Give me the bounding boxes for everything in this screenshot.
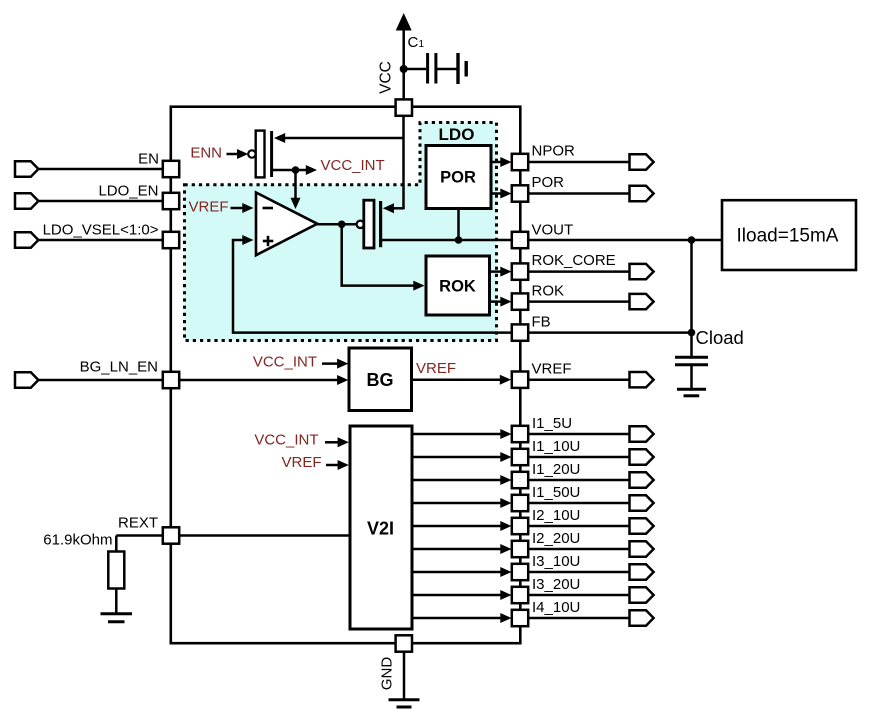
- svg-text:ROK_CORE: ROK_CORE: [532, 252, 616, 269]
- svg-text:I3_10U: I3_10U: [532, 553, 580, 570]
- wire VCC_INT down into LDO: [294, 170, 297, 199]
- LDO block cyan fill: [185, 123, 497, 341]
- wire I1_50U output: [528, 502, 630, 505]
- wire NPOR output: [528, 161, 630, 164]
- svg-text:VREF: VREF: [532, 361, 572, 378]
- port I1_10U output: [630, 449, 654, 464]
- pin I1_20U: [512, 472, 528, 488]
- ARROWHEADS: [237, 13, 512, 623]
- port EN input: [15, 161, 38, 176]
- wire V2I to I3_20U: [412, 594, 502, 597]
- wire VREF to op-amp minus input: [231, 207, 244, 210]
- wire V2I to I1_10U: [412, 456, 502, 459]
- wire I3_10U output: [528, 571, 630, 574]
- wire ROK output: [528, 300, 630, 303]
- wire ENN gate lead: [227, 153, 241, 156]
- transistor ENN channel bar: [270, 131, 273, 177]
- svg-text:VREF: VREF: [416, 360, 456, 377]
- wire LDO_VSEL input: [37, 239, 165, 242]
- svg-text:LDO_EN: LDO_EN: [98, 183, 158, 200]
- wire V2I to I3_10U: [412, 571, 502, 574]
- wire I3_20U output: [528, 594, 630, 597]
- arrow V2I to I1_10U pin: [500, 452, 511, 462]
- wire VCC arrow shaft: [402, 17, 405, 107]
- wire REXT resistor bottom lead: [115, 589, 118, 614]
- wire op-amp output to ROK input: [342, 224, 416, 285]
- wire I2_20U output: [528, 548, 630, 551]
- svg-text:FB: FB: [532, 314, 551, 331]
- pin VCC: [396, 99, 412, 115]
- wire V2I to I1_5U: [412, 433, 502, 436]
- svg-text:NPOR: NPOR: [532, 143, 576, 160]
- arrow V2I to I1_20U pin: [500, 475, 511, 485]
- wire C1 cap middle lead: [437, 68, 457, 71]
- wire EN input: [37, 168, 165, 171]
- ground below resistor: [101, 614, 133, 622]
- wire I1_10U output: [528, 456, 630, 459]
- capacitor Cload plates: [675, 357, 708, 365]
- svg-text:I1_5U: I1_5U: [532, 415, 572, 432]
- node VOUT/Iload junction: [688, 236, 696, 244]
- svg-text:ROK: ROK: [532, 283, 565, 300]
- wire C1 cap left lead: [404, 68, 427, 71]
- transistor pass PMOS gate bubble: [357, 221, 364, 228]
- arrow ENN source to VCC_INT label: [306, 165, 317, 175]
- svg-text:ROK: ROK: [439, 278, 476, 296]
- transistor ENN gate plate: [256, 131, 265, 178]
- wire Cload bottom lead: [690, 366, 693, 389]
- arrow VREF to minus input: [242, 203, 253, 213]
- svg-text:V2I: V2I: [367, 519, 394, 539]
- arrow POR to POR pin: [500, 189, 511, 199]
- svg-text:EN: EN: [138, 151, 159, 168]
- arrow VCC_INT down: [291, 198, 301, 209]
- svg-text:BG_LN_EN: BG_LN_EN: [80, 359, 158, 376]
- port LDO_VSEL input: [15, 232, 38, 247]
- wire V2I to I2_10U: [412, 525, 502, 528]
- pin FB: [512, 324, 528, 340]
- wire VOUT to Iload: [528, 239, 722, 242]
- pin REXT: [163, 527, 179, 543]
- svg-text:VCC: VCC: [378, 61, 395, 94]
- pin I1_50U: [512, 495, 528, 511]
- wire POR to NPOR pin: [491, 161, 502, 164]
- svg-text:VCC_INT: VCC_INT: [253, 354, 317, 371]
- arrow V2I to I1_50U pin: [500, 498, 511, 508]
- wire V2I to I2_20U: [412, 548, 502, 551]
- pin NPOR: [512, 154, 528, 170]
- wire op-amp output: [317, 223, 357, 226]
- svg-text:BG: BG: [367, 370, 394, 390]
- pin LDO_EN: [163, 193, 179, 209]
- transistor pass PMOS gate plate: [364, 200, 374, 248]
- LDO block dotted border: [185, 123, 497, 341]
- port I1_20U output: [630, 472, 654, 487]
- port I2_10U output: [630, 518, 654, 533]
- arrow VCC_INT into V2I: [338, 437, 349, 447]
- capacitor C1 plates: [428, 53, 467, 84]
- svg-text:61.9kOhm: 61.9kOhm: [43, 532, 112, 549]
- node VCC / C1 junction: [400, 65, 408, 73]
- wire BG to VREF pin: [412, 378, 502, 381]
- svg-text:GND: GND: [379, 657, 396, 691]
- port ROK_CORE output: [630, 264, 654, 279]
- block V2I: [350, 426, 412, 629]
- svg-text:Iload=15mA: Iload=15mA: [737, 226, 839, 247]
- pin EN: [163, 161, 179, 177]
- wire ROK to ROK pin: [490, 300, 503, 303]
- arrow POR to NPOR pin: [500, 157, 511, 167]
- wire I2_10U output: [528, 525, 630, 528]
- wire I1_5U output: [528, 433, 630, 436]
- wire VREF output: [528, 378, 630, 381]
- pin POR: [512, 185, 528, 201]
- svg-text:I3_20U: I3_20U: [532, 576, 580, 593]
- arrow ROK to ROK_CORE pin: [500, 267, 511, 277]
- wire REXT to V2I: [116, 534, 350, 537]
- arrow into ENN drain: [274, 133, 285, 143]
- pin ROK: [512, 293, 528, 309]
- arrow V2I to I2_20U pin: [500, 544, 511, 554]
- wire V2I to I1_20U: [412, 479, 502, 482]
- pin I4_10U: [512, 610, 528, 626]
- node op-amp output junction: [338, 221, 346, 229]
- wire FB external: [528, 331, 692, 334]
- arrow VREF into V2I: [338, 460, 349, 470]
- port BG_LN_EN input: [15, 372, 38, 387]
- pin VREF: [512, 372, 528, 388]
- arrow ROK to ROK pin: [500, 297, 511, 307]
- wire ENN source to VCC_INT: [273, 169, 307, 172]
- CONNECTORS: [15, 154, 654, 625]
- wire BG_LN_EN input to BG block: [37, 379, 339, 382]
- port I1_5U output: [630, 426, 654, 441]
- wire V2I to I4_10U: [412, 617, 502, 620]
- wire VCC pin to transistors: [402, 112, 405, 209]
- svg-text:LDO_VSEL<1:0>: LDO_VSEL<1:0>: [43, 222, 159, 239]
- wire I4_10U output: [528, 617, 630, 620]
- svg-text:I1_50U: I1_50U: [532, 484, 580, 501]
- svg-text:VREF: VREF: [281, 454, 321, 471]
- pin I1_10U: [512, 449, 528, 465]
- svg-text:POR: POR: [532, 174, 565, 191]
- wire VCC to ENN transistor drain: [281, 137, 404, 140]
- svg-text:REXT: REXT: [118, 515, 158, 532]
- transistor ENN gate bubble: [248, 150, 255, 157]
- pin VOUT: [512, 232, 528, 248]
- port I4_10U output: [630, 610, 654, 625]
- node VCC_INT junction: [292, 166, 300, 174]
- block BG: [349, 348, 412, 411]
- arrow BG_LN_EN into BG: [337, 375, 348, 385]
- wire VCC to pass transistor drain: [390, 207, 404, 210]
- wire feedback to plus input: [233, 240, 513, 333]
- pin I2_20U: [512, 541, 528, 557]
- wire VOUT to FB node: [690, 240, 693, 333]
- node VOUT/POR junction: [455, 236, 463, 244]
- ground below Cload: [677, 389, 706, 396]
- wire ROK to ROK_CORE pin: [490, 270, 503, 273]
- svg-text:Cload: Cload: [696, 327, 744, 348]
- svg-text:1: 1: [419, 39, 425, 50]
- wire Cload top lead: [690, 333, 693, 356]
- pin I2_10U: [512, 518, 528, 534]
- wire VCC_INT to BG arrow lead: [322, 362, 339, 365]
- arrow VCC top: [396, 13, 412, 31]
- port I3_20U output: [630, 587, 654, 602]
- svg-text:POR: POR: [440, 169, 476, 187]
- port POR output: [630, 186, 654, 201]
- PINS: [163, 99, 528, 651]
- port VREF output: [630, 372, 654, 387]
- pin LDO_VSEL: [163, 232, 179, 248]
- port LDO_EN input: [15, 193, 38, 208]
- port I2_20U output: [630, 541, 654, 556]
- svg-text:I1_10U: I1_10U: [532, 438, 580, 455]
- wire LDO_EN input: [37, 200, 165, 203]
- wire VCC_INT to V2I lead: [325, 441, 340, 444]
- port NPOR output: [630, 154, 654, 169]
- op-amp minus sign: [263, 207, 274, 210]
- arrow V2I to I3_20U pin: [500, 590, 511, 600]
- svg-text:C: C: [408, 34, 419, 51]
- arrow into ROK: [413, 281, 424, 291]
- wire pass transistor source to VOUT pin: [382, 239, 514, 242]
- wire REXT resistor top lead: [115, 536, 118, 552]
- port ROK output: [630, 294, 654, 309]
- port I1_50U output: [630, 495, 654, 510]
- svg-text:I4_10U: I4_10U: [532, 599, 580, 616]
- pin GND: [396, 635, 412, 651]
- ground below GND pin: [389, 700, 420, 707]
- op-amp plus sign: [263, 236, 274, 246]
- pin BG_LN_EN: [163, 372, 179, 388]
- node FB/Cload junction: [688, 329, 696, 337]
- port I3_10U output: [630, 564, 654, 579]
- arrow V2I to I2_10U pin: [500, 521, 511, 531]
- svg-text:LDO: LDO: [439, 125, 475, 144]
- JUNCTION DOTS: [292, 65, 696, 336]
- svg-text:VOUT: VOUT: [532, 222, 574, 239]
- wire POR bottom stem: [457, 209, 460, 241]
- svg-text:VCC_INT: VCC_INT: [254, 432, 318, 449]
- arrow VCC_INT into BG: [337, 359, 348, 369]
- chip boundary: [171, 107, 521, 644]
- pin I3_10U: [512, 564, 528, 580]
- block POR: [426, 146, 491, 209]
- wire GND stem: [403, 650, 406, 699]
- arrow feedback to plus input: [242, 235, 253, 245]
- resistor REXT 61.9kOhm: [108, 552, 124, 589]
- wire ROK_CORE output: [528, 270, 630, 273]
- block ROK: [426, 256, 490, 315]
- wire VREF to V2I lead: [326, 464, 340, 467]
- svg-text:I1_20U: I1_20U: [532, 461, 580, 478]
- wire V2I to I1_50U: [412, 502, 502, 505]
- svg-text:I2_20U: I2_20U: [532, 530, 580, 547]
- wire POR output: [528, 192, 630, 195]
- svg-text:ENN: ENN: [190, 145, 222, 162]
- arrow V2I to I1_5U pin: [500, 429, 511, 439]
- wire I1_20U output: [528, 479, 630, 482]
- arrow V2I to I4_10U pin: [500, 613, 511, 623]
- pin ROK_CORE: [512, 263, 528, 279]
- arrow V2I to I3_10U pin: [500, 567, 511, 577]
- arrow BG to VREF pin: [500, 375, 511, 385]
- op-amp U1: [256, 193, 317, 256]
- arrow into pass transistor drain: [383, 203, 394, 213]
- pin I1_5U: [512, 426, 528, 442]
- block Iload: [722, 200, 856, 270]
- svg-text:I2_10U: I2_10U: [532, 507, 580, 524]
- transistor pass PMOS channel bar: [379, 201, 382, 247]
- V2I output wires: [412, 434, 630, 618]
- pin I3_20U: [512, 587, 528, 603]
- svg-text:VCC_INT: VCC_INT: [321, 157, 385, 174]
- label C1: [408, 34, 425, 51]
- arrow ENN gate: [237, 149, 248, 159]
- svg-text:VREF: VREF: [188, 199, 228, 216]
- wire POR to POR pin: [491, 192, 502, 195]
